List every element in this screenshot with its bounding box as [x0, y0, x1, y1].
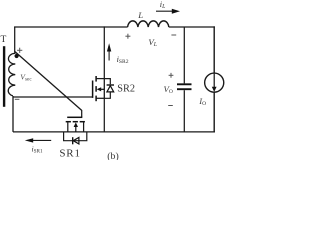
minus sign VO	[168, 105, 173, 107]
minus sign Vsec	[15, 98, 20, 100]
transistor SR2 drain lead	[96, 78, 104, 80]
current source IO circle	[205, 73, 224, 92]
SR2 body diode branch wires	[104, 79, 110, 99]
wire: bottom rail	[13, 131, 215, 133]
SR1 label	[59, 148, 80, 160]
iSR1 current arrow	[25, 138, 51, 142]
IO label	[198, 97, 206, 107]
transformer secondary winding	[8, 52, 15, 96]
wire: SR1 gate lead vertical	[81, 110, 83, 117]
iSR2 current arrow	[107, 43, 111, 60]
L value label	[137, 10, 143, 20]
plus sign VO	[169, 73, 174, 78]
transistor SR2 body bar	[103, 79, 105, 99]
SR2 body diode symbol	[107, 85, 114, 92]
transistor SR2 body arrow	[97, 87, 105, 91]
svg-text:SR2: SR2	[117, 84, 135, 95]
wire: transformer bottom vertical to bottom rail	[12, 96, 14, 132]
transistor SR1 drain lead	[67, 122, 69, 132]
iL current arrow	[156, 9, 180, 14]
plus sign VL	[125, 34, 130, 39]
wire: top-left vertical from top rail to winding top	[14, 27, 16, 53]
transistor SR2 source lead	[96, 97, 104, 99]
svg-text:(b): (b)	[107, 151, 118, 160]
iSR2 label	[117, 55, 129, 65]
wire: top rail left section	[14, 26, 128, 28]
Vsec label	[20, 73, 32, 83]
node dot (polarity dot at winding top)	[15, 54, 19, 58]
current source IO arrow	[212, 74, 217, 92]
transistor SR1 source lead	[83, 122, 85, 132]
wire: SR2 source vertical to bottom rail	[103, 98, 105, 132]
SR2 label	[117, 84, 135, 95]
iSR1 label	[32, 145, 44, 155]
transistor SR2 channel segments	[95, 76, 97, 101]
SR1 body diode branch	[64, 132, 87, 141]
wire: SR2 drain vertical to top rail	[103, 26, 105, 78]
wire: capacitor branch bottom	[183, 90, 185, 132]
plus sign Vsec	[17, 48, 22, 53]
svg-text:SR1: SR1	[59, 148, 80, 160]
transistor SR1 channel segments	[66, 121, 85, 123]
transformer core	[3, 46, 5, 107]
transistor SR1 body arrow	[74, 122, 78, 131]
iL label	[160, 0, 166, 10]
capacitor CO top plate	[177, 83, 192, 85]
wire: right branch vertical (current source branch)	[213, 26, 215, 132]
wire: SR2 gate line from winding bottom	[13, 96, 92, 98]
VL label	[148, 37, 157, 48]
transformer T label	[1, 35, 7, 45]
SR1 body diode symbol	[73, 137, 79, 144]
inductor L	[128, 21, 169, 27]
svg-text:L: L	[137, 10, 143, 20]
wire: diagonal cross-coupling from winding top to SR1 gate	[15, 52, 82, 111]
minus sign VL	[171, 34, 176, 36]
transistor SR2 gate bar	[92, 81, 94, 98]
svg-text:T: T	[1, 35, 7, 45]
transistor SR1 gate bar	[67, 116, 82, 118]
wire: top rail right section	[169, 26, 215, 28]
(b) caption	[107, 151, 118, 162]
wire: capacitor branch top	[183, 27, 185, 83]
VO label	[164, 84, 173, 95]
capacitor CO bottom plate	[177, 88, 192, 90]
